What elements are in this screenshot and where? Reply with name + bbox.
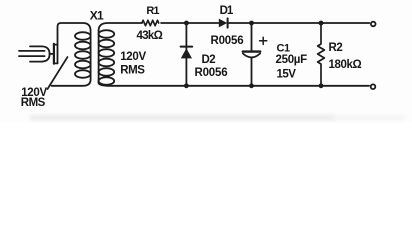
- svg-text:15V: 15V: [277, 68, 297, 80]
- svg-text:C1: C1: [277, 42, 291, 54]
- svg-text:R0056: R0056: [211, 35, 244, 47]
- svg-text:RMS: RMS: [21, 97, 46, 109]
- svg-text:43kΩ: 43kΩ: [137, 30, 163, 42]
- svg-text:R2: R2: [329, 42, 343, 54]
- svg-text:D1: D1: [220, 5, 234, 17]
- svg-text:X1: X1: [90, 9, 104, 23]
- svg-text:120V: 120V: [120, 51, 146, 63]
- svg-text:D2: D2: [202, 54, 216, 66]
- svg-text:180kΩ: 180kΩ: [329, 59, 362, 71]
- svg-text:RMS: RMS: [120, 64, 145, 76]
- svg-text:R1: R1: [146, 5, 159, 17]
- svg-text:250µF: 250µF: [276, 54, 308, 66]
- svg-text:R0056: R0056: [195, 67, 228, 79]
